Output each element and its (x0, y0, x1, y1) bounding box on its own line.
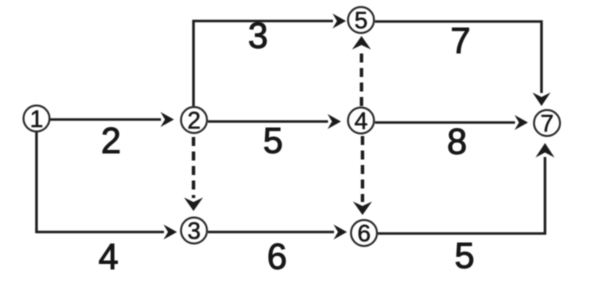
node 6 (351, 220, 377, 248)
svg-text:3: 3 (248, 15, 268, 56)
wire 5-7 (activity arrow) (375, 22, 551, 107)
node 3 (181, 218, 207, 246)
svg-text:7: 7 (540, 111, 553, 138)
svg-text:5: 5 (454, 235, 474, 276)
wire 3-6 (activity arrow) (208, 225, 347, 240)
node 7 (534, 110, 560, 138)
node 5 (348, 7, 374, 35)
wire 2-5 (activity arrow) (194, 14, 347, 107)
wire 4-7 (activity arrow) (375, 115, 528, 130)
node 2 (181, 107, 207, 135)
svg-text:1: 1 (30, 106, 43, 133)
svg-text:5: 5 (263, 120, 283, 161)
svg-text:6: 6 (267, 236, 287, 277)
wire 1-2 (activity arrow) (50, 112, 174, 127)
svg-text:3: 3 (187, 218, 200, 245)
wire 1-3 (activity arrow) (37, 132, 178, 240)
wire 6-7 (activity arrow) (378, 143, 555, 234)
svg-text:6: 6 (357, 221, 370, 248)
node 1 (24, 106, 50, 134)
wire 2-3 (dashed dummy arrow) (184, 137, 203, 211)
svg-text:4: 4 (354, 108, 367, 135)
wire 4-6 (dashed dummy arrow) (353, 136, 372, 215)
wire 4-5 (dashed dummy arrow) (352, 36, 371, 106)
svg-text:2: 2 (101, 120, 121, 161)
node 4 (348, 108, 374, 136)
svg-text:4: 4 (98, 236, 118, 277)
svg-text:5: 5 (354, 8, 367, 35)
wire 2-4 (activity arrow) (208, 114, 341, 129)
svg-text:7: 7 (450, 20, 470, 61)
svg-text:8: 8 (447, 121, 467, 162)
svg-text:2: 2 (187, 108, 200, 135)
